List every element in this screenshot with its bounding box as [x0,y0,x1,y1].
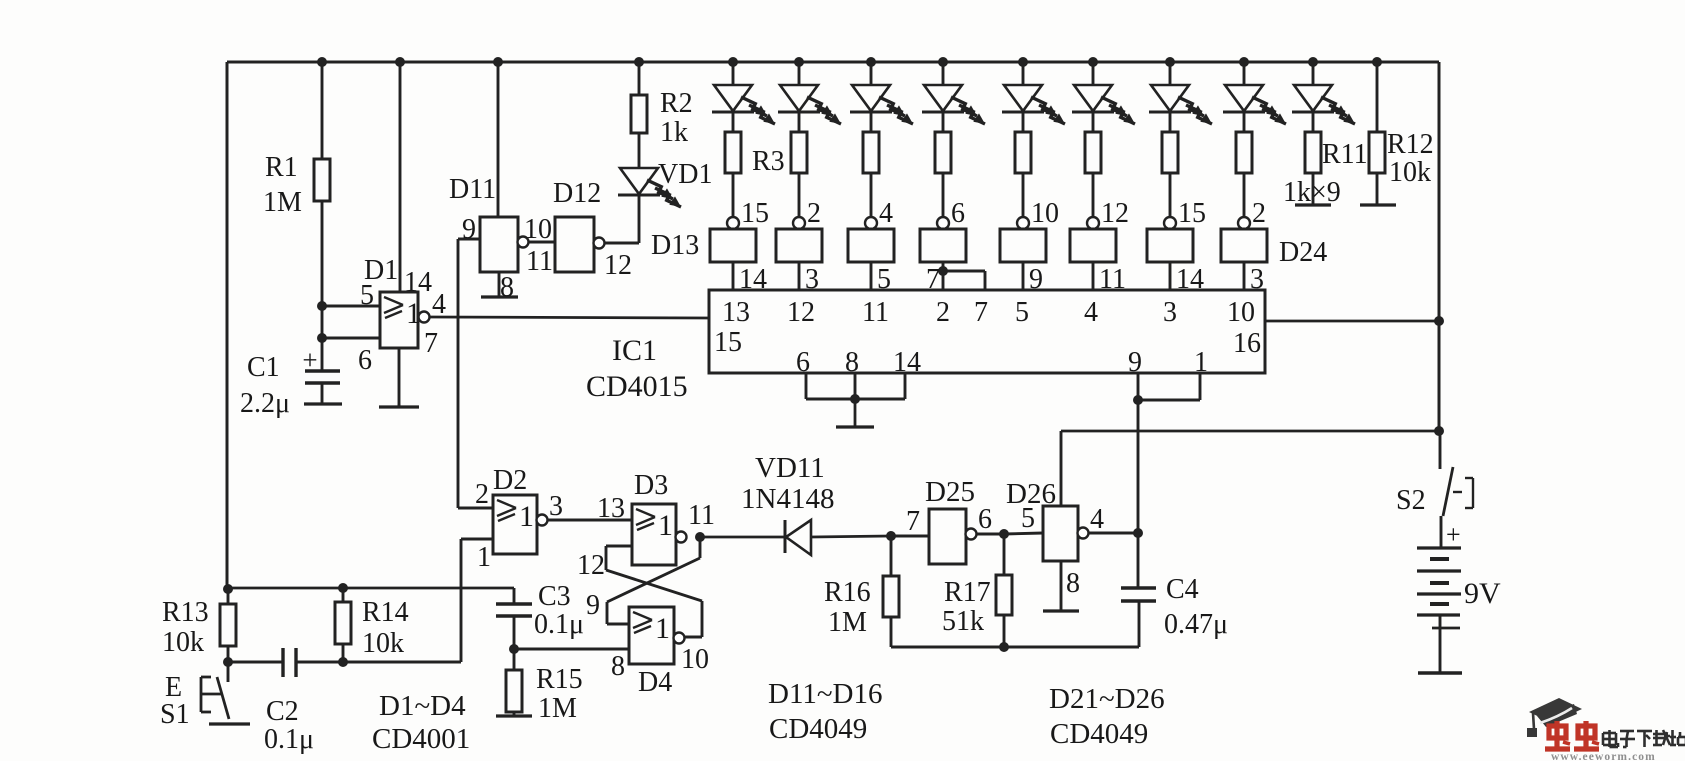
wire to D26 pin5 [1004,503,1043,534]
wire D2 pin1 input [461,539,493,662]
wire top +V rail [227,61,1439,64]
pin D2 output 3 bubble [537,491,564,526]
wire R3 to D13 [732,173,735,217]
svg-text:14: 14 [404,267,432,298]
svg-text:6: 6 [796,347,810,378]
svg-text:D12: D12 [553,178,601,209]
svg-text:1k: 1k [660,117,688,148]
svg-text:8: 8 [845,347,859,378]
svg-text:1M: 1M [538,693,577,724]
svg-text:2: 2 [1252,198,1266,229]
pin IC1 bottom label 14 [893,347,921,378]
capacitor C1 [240,345,342,419]
gate D3 (NOR, CD4001) [632,470,676,565]
svg-text:2.2μ: 2.2μ [240,388,290,419]
switch S1 (pushbutton E) [160,662,229,730]
wire D24 output pin 3 to IC1 [1244,262,1264,295]
wire D15 output pin 5 to IC1 [871,262,891,295]
svg-text:12: 12 [787,297,815,328]
ground IC1 pin8 [836,399,874,427]
wire D1 pin6 [322,338,380,376]
resistor R5 (1k×9) [863,132,879,173]
ground R11 [1295,173,1331,205]
svg-text:7: 7 [974,297,988,328]
resistor R7 (1k×9) [1015,132,1031,173]
svg-text:+: + [302,345,317,375]
resistor R15 [506,649,583,724]
svg-text:10k: 10k [162,627,204,658]
junction top rail at LED4 [938,57,948,67]
pin IC1 top label 2 [936,297,950,328]
svg-text:CD4015: CD4015 [586,370,688,403]
svg-text:15: 15 [741,198,769,229]
svg-text:9: 9 [586,590,600,621]
svg-text:12: 12 [1101,198,1129,229]
pin D11 output 10 bubble [518,214,553,277]
svg-text:R3: R3 [752,146,785,177]
resistor R1 [263,152,330,218]
svg-text:11: 11 [688,500,715,531]
wire D11 out to D12 in [528,241,555,244]
resistor R16 [824,536,899,638]
capacitor C4 [1121,574,1228,640]
svg-text:2: 2 [475,479,489,510]
wire D22 output pin 11 to IC1 [1093,262,1126,295]
wire D21 output pin 9 to IC1 [1023,262,1043,295]
svg-text:D2: D2 [493,465,527,496]
resistor R3 (1k×9) [725,132,785,177]
wire R7 to D21 [1022,173,1025,217]
wire battery negative [1432,615,1460,672]
svg-text:1: 1 [658,509,673,542]
node D1 pin5 junction [317,301,327,311]
pin IC1 bottom label 1 [1194,347,1208,378]
gate D1 (NOR, CD4001) [364,255,421,348]
svg-text:R2: R2 [660,88,693,119]
gate D26 (inverter) [1006,478,1078,561]
svg-text:6: 6 [978,504,992,535]
junction top rail at LED8 [1239,57,1249,67]
LED 9 [1292,62,1355,132]
svg-text:C3: C3 [538,581,571,612]
pin D16 output bubble (6) [937,198,965,229]
junction top rail at LED3 [866,57,876,67]
svg-text:15: 15 [714,327,742,358]
svg-text:D25: D25 [925,476,975,508]
svg-text:14: 14 [893,347,921,378]
resistor R10 (1k×9) [1236,132,1252,173]
svg-text:R15: R15 [536,664,583,695]
resistor R13 [162,589,236,662]
pin D26 output 4 bubble [1078,504,1105,539]
ground battery [1418,671,1462,674]
pin D13 output bubble (15) [727,198,769,229]
pin D14 output bubble (2) [793,198,821,229]
pin D21 output bubble (10) [1017,198,1059,229]
svg-text:10k: 10k [1389,157,1431,188]
pin IC1 top label 10 [1227,297,1255,328]
svg-text:R12: R12 [1387,129,1434,160]
switch S2 [1396,431,1473,516]
svg-text:13: 13 [597,493,625,524]
pin IC1 top label 13 [722,297,750,328]
svg-text:1: 1 [477,542,491,573]
svg-text:R17: R17 [944,577,991,608]
pin D12 output bubble [594,238,633,282]
inverter D14 [776,229,822,262]
node D3 output junction [695,532,705,542]
capacitor C2 [228,648,343,755]
wire right rail [1438,62,1441,431]
wire node A riser (D1 out / D11 in / D2 in) [457,239,460,508]
svg-text:11: 11 [526,246,553,277]
node D1 pin6 junction [317,333,327,343]
wire D11 pin9 input [458,214,480,245]
battery 9V [1417,520,1501,615]
diode VD11 1N4148 [741,452,834,555]
wire D2 pin2 input [458,479,493,510]
wire oscillator bottom [891,601,1139,652]
wire D25 out to R17 node [976,533,1004,536]
svg-text:2: 2 [936,297,950,328]
pin D24 output bubble (2) [1238,198,1266,229]
svg-text:2: 2 [807,198,821,229]
svg-text:8: 8 [1066,568,1080,599]
junction pin16 / right rail [1434,316,1444,326]
pin D1 output 4 bubble [419,289,447,323]
wire D1 output to IC1 pin15 [429,317,709,318]
inverter D15 [848,229,894,262]
pin IC1 top label 11 [862,297,889,328]
resistor R11 (1k×9) [1283,132,1368,208]
wire to D25 pin7 [891,506,929,537]
resistor R9 (1k×9) [1162,132,1178,173]
svg-text:10k: 10k [362,628,404,659]
svg-text:4: 4 [1084,297,1098,328]
svg-text:IC1: IC1 [612,334,657,367]
ground D11 pin8 [481,272,518,303]
svg-text:16: 16 [1233,328,1261,359]
wire R1 column [321,62,324,371]
svg-text:6: 6 [358,345,372,376]
svg-text:R11: R11 [1322,139,1368,170]
wire D2 out to D3 pin13 [547,493,632,524]
svg-text:1: 1 [519,500,534,533]
svg-text:10: 10 [1031,198,1059,229]
node R17 junction [999,529,1009,539]
svg-text:D21~D26: D21~D26 [1049,683,1165,715]
junction top rail at LED1 [728,57,738,67]
capacitor C3 [496,581,584,649]
pin IC1 top label 5 [1015,297,1029,328]
pin D23 output bubble (15) [1164,198,1206,229]
wire R6 to D16 [942,173,945,217]
svg-text:S1: S1 [160,699,190,730]
svg-text:10: 10 [1227,297,1255,328]
svg-text:VD11: VD11 [755,452,825,484]
svg-text:D3: D3 [634,470,668,501]
resistor R4 (1k×9) [791,132,807,173]
wire IC1 pin16 to right rail [1265,320,1439,323]
svg-text:CD4001: CD4001 [372,723,470,755]
svg-text:S2: S2 [1396,485,1426,516]
pin IC1 label 16 [1233,328,1261,359]
svg-text:4: 4 [432,289,446,320]
wire D13 output pin 14 to IC1 [733,262,767,295]
pin D15 output bubble (4) [865,198,893,229]
wire R8 to D22 [1092,173,1095,217]
junction top rail at R1 [317,57,327,67]
svg-text:7: 7 [424,328,438,359]
svg-text:D11~D16: D11~D16 [768,678,883,710]
svg-text:11: 11 [862,297,889,328]
wire D1 pin5 [322,280,380,311]
pin IC1 bottom label 8 [845,347,859,378]
svg-text:10: 10 [681,644,709,675]
wire S2 to battery [1440,516,1443,548]
resistor R2 [631,88,693,148]
pin IC1 top label 3 [1163,297,1177,328]
pin D25 output 6 bubble [966,504,993,540]
svg-text:5: 5 [1015,297,1029,328]
watermark logo eeworm [1527,698,1685,761]
wire D3 pin12 cross-couple from D4 out [577,546,702,637]
svg-text:C2: C2 [266,696,299,727]
junction top rail at R12 [1372,57,1382,67]
node R14 top junction [338,583,348,593]
wire R10 to D24 [1243,173,1246,217]
label D1~D4 CD4001 [372,690,470,755]
svg-text:6: 6 [951,198,965,229]
svg-text:D4: D4 [638,667,672,698]
pin IC1 label 15 [714,327,742,358]
svg-text:D11: D11 [449,174,496,205]
pin IC1 bottom label 9 [1128,347,1142,378]
wire VD11 to R16 node [811,536,891,537]
label D21~D26 CD4049 [1049,683,1165,750]
wire clock node riser (IC1 pin9 to D26 out / C4) [1137,400,1140,588]
wire D11 top pin [497,62,500,217]
resistor R8 (1k×9) [1085,132,1101,173]
LED 2 [778,62,841,132]
svg-text:0.1μ: 0.1μ [534,609,584,640]
pin IC1 top label 12 [787,297,815,328]
node C3 / R15 / D4 junction [509,644,519,654]
svg-text:1M: 1M [263,187,302,218]
wire R9 to D23 [1169,173,1172,217]
pin D22 output bubble (12) [1087,198,1129,229]
resistor R6 (1k×9) [935,132,951,173]
resistor R17 [942,534,1012,637]
svg-text:4: 4 [1090,504,1104,535]
svg-text:D1: D1 [364,255,398,286]
svg-text:7: 7 [906,506,920,537]
wire +V from right rail to D26 top [1061,431,1439,506]
inverter D13 [651,229,756,262]
svg-text:C1: C1 [247,352,280,383]
LED 5 [1002,62,1065,132]
junction top rail at D1 pin14 [395,57,405,67]
svg-text:D26: D26 [1006,478,1056,510]
node R14 bottom junction [338,657,348,667]
resistor R12 [1369,62,1434,188]
wire D1 pin14 [400,62,432,298]
svg-text:D24: D24 [1279,237,1327,268]
junction right rail / supply wire [1434,426,1444,436]
IC U1 CD4015 body [586,290,1265,403]
ground S1 [209,722,250,725]
gate D2 (NOR, CD4001) [493,465,537,554]
inverter D23 [1147,229,1193,262]
svg-text:D13: D13 [651,230,699,261]
svg-text:9: 9 [1128,347,1142,378]
node R16 junction [886,531,896,541]
ground D26 pin8 [1043,561,1080,611]
svg-text:www.eeworm.com: www.eeworm.com [1551,751,1656,761]
svg-text:12: 12 [604,250,632,281]
wire RC node to C3 [228,588,514,604]
junction top rail at D11 top [493,57,503,67]
wire C2 node to D2 pin1 riser [343,661,461,664]
gate D12 (inverter) [553,178,601,272]
inverter D24 [1221,229,1327,268]
wire R5 to D15 [870,173,873,217]
wire R4 to D14 [798,173,801,217]
wire D12 out to VD1 [604,242,639,245]
junction top rail at LED7 [1165,57,1175,67]
inverter D16 [920,229,966,262]
svg-text:3: 3 [549,491,563,522]
LED VD1 [618,159,712,243]
wire D14 output pin 3 to IC1 [799,262,819,295]
node R13 bottom junction [223,657,233,667]
svg-text:1M: 1M [828,607,867,638]
svg-text:R14: R14 [362,597,409,628]
node D26 out / C4 junction [1133,528,1143,538]
gate D11 (inverter) [449,174,518,272]
svg-text:R1: R1 [265,152,298,183]
svg-text:CD4049: CD4049 [769,713,867,745]
pin D4 output 10 bubble [674,633,710,676]
svg-text:0.47μ: 0.47μ [1164,609,1228,640]
svg-text:C4: C4 [1166,574,1199,605]
svg-text:R13: R13 [162,597,209,628]
LED 7 [1149,62,1212,132]
svg-text:VD1: VD1 [658,159,712,190]
svg-text:9V: 9V [1464,577,1501,610]
svg-text:51k: 51k [942,606,984,637]
pin D3 output 11 bubble [676,500,715,543]
svg-text:8: 8 [611,651,625,682]
junction top rail at LED6 [1088,57,1098,67]
pin IC1 bottom label 6 [796,347,810,378]
svg-text:10: 10 [524,214,552,245]
resistor R14 [335,588,409,662]
svg-text:1N4148: 1N4148 [741,483,834,515]
svg-text:1: 1 [655,612,670,645]
node R13 top junction [223,584,233,594]
svg-text:CD4049: CD4049 [1050,718,1148,750]
junction top rail at LED9 [1308,57,1318,67]
wire R2 column [638,62,641,168]
ground R15 [496,712,532,716]
svg-text:4: 4 [879,198,893,229]
pin IC1 top label 7 [974,297,988,328]
wire D23 output pin 14 to IC1 [1170,262,1204,295]
junction top rail at LED5 [1018,57,1028,67]
ground D1 pin7 [379,328,438,407]
LED 6 [1072,62,1135,132]
svg-text:9: 9 [462,214,476,245]
svg-text:15: 15 [1178,198,1206,229]
wire D4 pin9 cross-couple from D3 out [586,537,700,624]
svg-text:+: + [1446,520,1461,549]
svg-text:3: 3 [1163,297,1177,328]
svg-text:12: 12 [577,550,605,581]
svg-text:8: 8 [500,272,514,303]
gate D4 (NOR, CD4001) [629,607,674,698]
wire left rail [226,62,229,589]
junction top rail at LED2 [794,57,804,67]
svg-text:13: 13 [722,297,750,328]
LED 4 [922,62,985,132]
wire D26 out to clock node [1088,532,1138,535]
inverter D22 [1070,229,1116,262]
wire D4 pin8 input [514,649,629,682]
svg-text:0.1μ: 0.1μ [264,724,314,755]
ground R12 [1360,173,1396,205]
LED 3 [850,62,913,132]
LED 8 [1223,62,1286,132]
svg-text:D1~D4: D1~D4 [379,690,466,722]
LED 1 [712,62,775,132]
inverter D21 [1000,229,1046,262]
wire D16 output to IC1 pins 2 and 7 [926,262,985,295]
junction top rail at R2 [634,57,644,67]
wire IC1 pins 9 and 1 [1133,373,1200,405]
pin IC1 top label 4 [1084,297,1098,328]
wire D3 out to VD11 [700,536,785,539]
svg-text:R16: R16 [824,577,871,608]
label D11~D16 CD4049 [768,678,883,745]
wire IC1 pins 6 8 14 to ground [806,373,905,404]
gate D25 (inverter) [925,476,975,564]
